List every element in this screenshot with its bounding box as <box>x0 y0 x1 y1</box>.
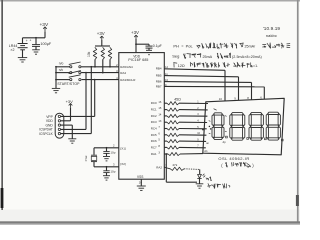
svg-text:OSL 40562-IR: OSL 40562-IR <box>218 156 249 161</box>
svg-text:=1.: =1. <box>253 64 258 68</box>
svg-text:nakbc: nakbc <box>266 33 277 38</box>
svg-text:45Ω: 45Ω <box>174 98 181 102</box>
svg-text:VSS: VSS <box>137 175 143 179</box>
svg-text:+: + <box>26 39 28 43</box>
svg-text:RA1: RA1 <box>151 152 157 156</box>
svg-text:10p: 10p <box>110 170 115 174</box>
svg-text:25mA/: 25mA/ <box>245 45 257 49</box>
svg-text:PH: PH <box>173 43 179 48</box>
svg-text:X'tal: X'tal <box>84 155 88 161</box>
svg-text:47k: 47k <box>172 163 177 167</box>
svg-text:RC0: RC0 <box>151 101 157 105</box>
svg-text:RC1: RC1 <box>151 108 157 112</box>
svg-text:RB4: RB4 <box>156 67 162 71</box>
svg-text:dp: dp <box>223 140 227 144</box>
svg-text:RA3/MCLR: RA3/MCLR <box>120 78 136 82</box>
svg-text:RB7: RB7 <box>156 84 162 88</box>
svg-text:'10.9.19: '10.9.19 <box>263 26 281 31</box>
svg-text:START/STOP: START/STOP <box>57 82 80 86</box>
svg-text:ICSPCLK: ICSPCLK <box>39 132 54 136</box>
svg-text:RC2: RC2 <box>151 114 157 118</box>
svg-text:RC6: RC6 <box>151 139 157 143</box>
svg-text:Seg: Seg <box>172 54 179 59</box>
svg-text:25mA: 25mA <box>203 55 213 59</box>
svg-text:RC4: RC4 <box>151 127 157 131</box>
svg-text:12Ω: 12Ω <box>178 64 185 68</box>
svg-text:[X2]: [X2] <box>120 162 126 166</box>
svg-text:×2: ×2 <box>10 48 14 52</box>
svg-text:PIC16F 685: PIC16F 685 <box>128 58 148 62</box>
svg-text:(2.5mA×8=20mA): (2.5mA×8=20mA) <box>232 55 262 59</box>
svg-text:10k: 10k <box>87 51 91 57</box>
svg-text:+3V: +3V <box>131 30 139 35</box>
svg-text:0.1μF: 0.1μF <box>153 44 162 48</box>
svg-text:RA2: RA2 <box>156 166 162 170</box>
svg-text:100μF: 100μF <box>40 42 52 46</box>
svg-text:+: + <box>30 38 32 42</box>
svg-text:RC5: RC5 <box>151 133 157 137</box>
svg-text:PoL: PoL <box>186 43 194 48</box>
svg-text:RA4: RA4 <box>120 71 126 75</box>
svg-text:+3V: +3V <box>66 99 74 104</box>
svg-text:n/c: n/c <box>59 68 64 72</box>
svg-text:10: 10 <box>219 97 223 101</box>
svg-text:RC3: RC3 <box>151 120 157 124</box>
svg-text:+3V: +3V <box>97 31 105 36</box>
svg-text:RA5/AN4: RA5/AN4 <box>120 65 133 69</box>
svg-text:10p: 10p <box>110 150 115 154</box>
svg-text:RB6: RB6 <box>156 80 162 84</box>
svg-text:RC7: RC7 <box>151 145 157 149</box>
svg-text:[X1]: [X1] <box>120 146 126 150</box>
svg-text:A1: A1 <box>204 149 208 153</box>
svg-text:=: = <box>181 44 183 48</box>
svg-text:RB5: RB5 <box>156 74 162 78</box>
svg-text:n/o: n/o <box>59 62 64 66</box>
